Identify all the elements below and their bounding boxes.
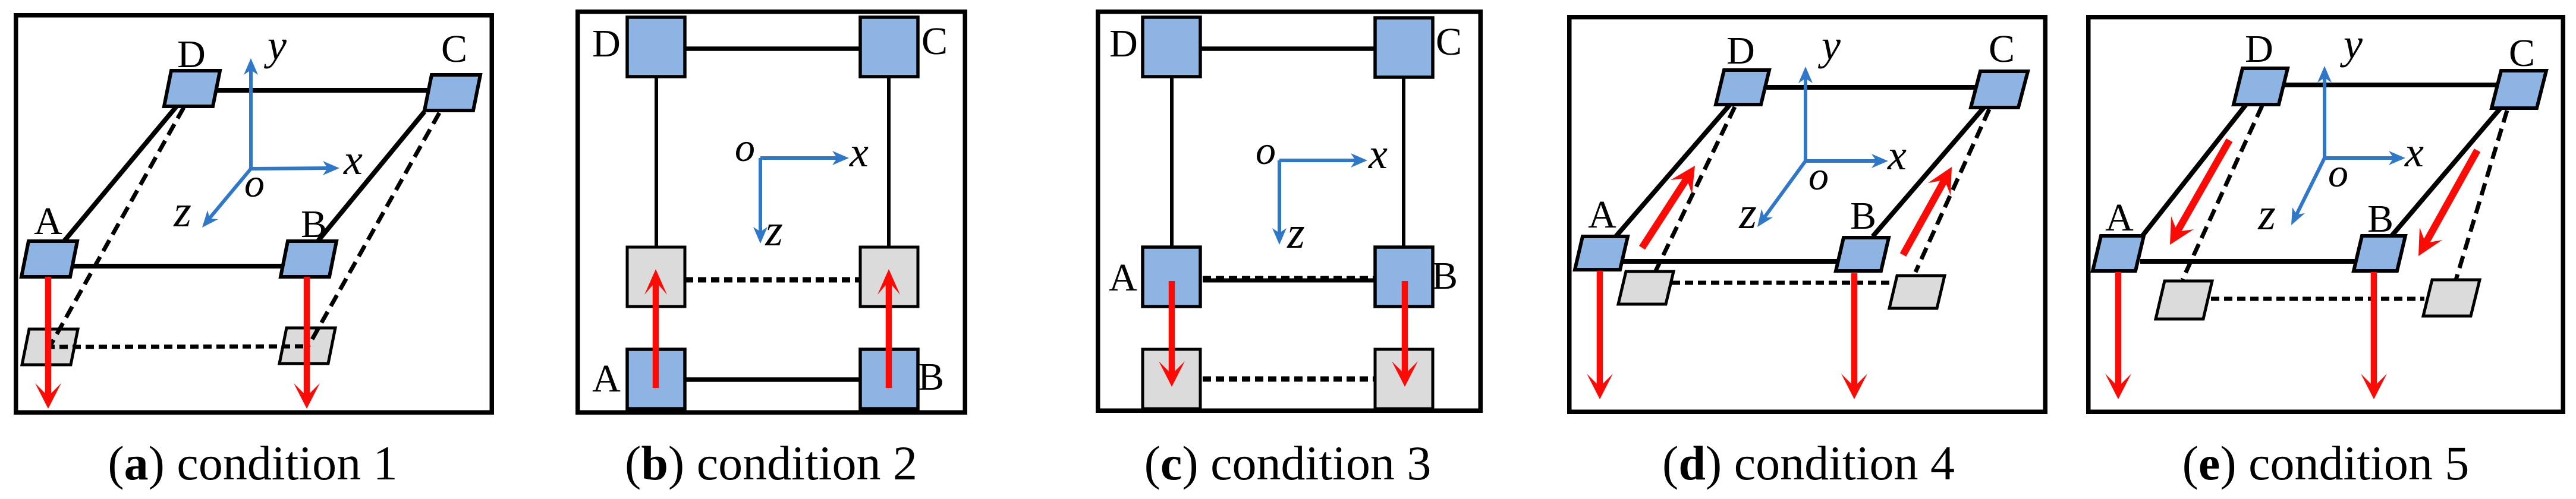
svg-text:(c) condition 3: (c) condition 3 [1144, 436, 1432, 490]
wire D-C edge (a) [209, 88, 430, 93]
svg-text:B: B [301, 203, 327, 246]
svg-text:x: x [2404, 128, 2424, 176]
svg-text:o: o [1256, 128, 1276, 173]
svg-text:A: A [2105, 196, 2134, 239]
plate corner C (d) [1971, 71, 2028, 108]
svg-text:o: o [244, 160, 265, 206]
wire D-C edge (d) [1763, 85, 1980, 90]
plate corner A (a) [21, 241, 77, 277]
plate corner B (a) [281, 241, 336, 277]
svg-text:y: y [2339, 20, 2363, 68]
svg-text:(b) condition 2: (b) condition 2 [625, 436, 917, 490]
force arrow at A (c) [1159, 281, 1185, 387]
force arrow at B (e) [2361, 272, 2387, 399]
wire B-C edge (a) [316, 112, 424, 243]
dashed A'-B' (c) [1203, 377, 1375, 382]
shear arrow along B-C (d) [1903, 167, 1952, 255]
plate corner C (b) [860, 17, 918, 77]
panel (e) frame [2089, 17, 2564, 412]
y-axis (e) [2317, 66, 2332, 158]
wire A-D edge (a) [63, 106, 177, 242]
gray square A' (a) [22, 329, 78, 365]
z-axis (d) [1757, 161, 1806, 227]
plate corner D (a) [164, 71, 220, 106]
svg-text:B: B [2367, 197, 2393, 241]
svg-text:z: z [1738, 188, 1757, 238]
svg-text:x: x [1368, 130, 1388, 178]
z-axis (a) [202, 169, 251, 228]
wire D-C edge (c) [1201, 46, 1375, 51]
gray square B' (d) [1889, 276, 1945, 308]
force arrow at B (b) [877, 269, 900, 388]
plate corner D (e) [2234, 68, 2288, 105]
svg-text:y: y [263, 21, 287, 69]
svg-text:A: A [592, 357, 621, 400]
x-axis (a) [251, 161, 339, 175]
gray square A' (b) [627, 247, 685, 307]
svg-text:A: A [1588, 193, 1616, 236]
wire D-C edge (b) [685, 46, 860, 51]
svg-text:x: x [343, 136, 363, 184]
svg-text:A: A [1109, 256, 1137, 299]
gray square B' (c) [1375, 349, 1433, 409]
panel (d) frame [1569, 17, 2046, 412]
gray square A' (d) [1618, 271, 1674, 304]
force arrow at B (d) [1841, 273, 1867, 399]
svg-text:z: z [173, 187, 191, 236]
plate corner A (c) [1143, 247, 1200, 307]
panel (a) frame [16, 15, 492, 413]
wire D-C edge (e) [2282, 83, 2497, 87]
wire C to B (c) [1402, 78, 1405, 248]
svg-text:C: C [921, 20, 948, 63]
svg-text:D: D [1109, 22, 1138, 65]
dashed A'-B' (e) [2211, 297, 2424, 301]
plate corner C (e) [2492, 71, 2546, 108]
svg-text:o: o [1808, 153, 1829, 198]
svg-text:D: D [2245, 27, 2273, 71]
svg-text:z: z [1287, 208, 1305, 258]
z-axis (b) [753, 158, 768, 244]
plate corner D (d) [1716, 70, 1769, 105]
plate corner A (e) [2093, 236, 2144, 271]
x-axis (b) [760, 151, 849, 165]
force arrow at A (b) [644, 269, 667, 388]
plate corner B (e) [2354, 236, 2405, 271]
dashed C to B' (a) [309, 113, 439, 346]
svg-text:B: B [1432, 254, 1458, 298]
svg-text:A: A [34, 200, 62, 243]
wire A-D edge (d) [1615, 105, 1730, 237]
svg-text:o: o [2328, 150, 2348, 195]
plate corner A (b) [627, 349, 685, 409]
svg-text:D: D [1726, 29, 1755, 72]
shear arrow along C-B (e) [2418, 150, 2477, 256]
wire A-B edge (d) [1623, 259, 1839, 264]
svg-text:z: z [2257, 190, 2276, 239]
svg-text:x: x [1887, 131, 1907, 179]
svg-text:C: C [441, 27, 467, 71]
dashed D to A' (a) [50, 108, 184, 346]
gray square B' (b) [860, 247, 918, 307]
dashed C to B' (d) [1916, 109, 1989, 272]
force arrow at B (c) [1392, 281, 1418, 387]
plate corner B (d) [1836, 238, 1889, 271]
svg-text:D: D [177, 33, 206, 76]
gray square A' (e) [2156, 281, 2212, 319]
x-axis (c) [1279, 153, 1367, 168]
force arrow at A (e) [2105, 272, 2131, 399]
gray square B' (e) [2423, 280, 2480, 316]
plate corner C (a) [424, 75, 480, 110]
svg-text:z: z [765, 206, 783, 255]
gray square A' (c) [1143, 349, 1200, 409]
wire C to B' (b) [887, 77, 891, 248]
panel (b) frame [578, 12, 965, 413]
wire A-B edge (a) [71, 264, 288, 269]
svg-text:B: B [918, 355, 944, 399]
svg-text:C: C [2509, 31, 2535, 75]
wire D to A' (b) [655, 77, 658, 248]
shear arrow along D-A (e) [2170, 140, 2229, 245]
y-axis (a) [244, 58, 258, 169]
gray square B' (a) [279, 328, 335, 364]
dashed A'-B' (b) [685, 277, 860, 283]
svg-text:D: D [592, 22, 621, 65]
wire A-D edge (e) [2141, 105, 2246, 237]
dashed original A-B (c) [1203, 276, 1375, 279]
plate corner B (b) [860, 349, 918, 409]
shear arrow along A-D (d) [1642, 166, 1695, 248]
plate corner D (b) [627, 17, 685, 77]
svg-text:x: x [849, 128, 869, 176]
z-axis (c) [1272, 160, 1287, 245]
wire A-B edge (b) [685, 377, 860, 382]
wire A-B edge (e) [2140, 259, 2357, 264]
dashed D to A' (d) [1655, 107, 1735, 272]
plate corner A (d) [1575, 236, 1628, 270]
force arrow at A (d) [1587, 271, 1613, 399]
svg-text:C: C [1436, 20, 1462, 64]
svg-text:(e) condition 5: (e) condition 5 [2182, 436, 2470, 490]
dashed C to B' (e) [2456, 110, 2507, 280]
panel (c) frame [1098, 12, 1481, 411]
dashed A'-B' (a) [46, 346, 307, 347]
svg-text:y: y [1817, 21, 1841, 69]
wire B-C edge (d) [1873, 108, 1984, 236]
svg-text:C: C [1989, 27, 2015, 71]
z-axis (e) [2291, 158, 2325, 225]
plate corner C (c) [1375, 18, 1433, 77]
svg-text:o: o [735, 125, 755, 170]
wire A-B edge (c) [1203, 279, 1375, 283]
dashed D to A' (e) [2182, 106, 2262, 280]
force arrow at B (a) [294, 277, 320, 409]
dashed A'-B' (d) [1672, 281, 1892, 285]
svg-text:(d) condition 4: (d) condition 4 [1662, 436, 1955, 490]
wire B-C edge (e) [2391, 108, 2500, 236]
x-axis (e) [2325, 151, 2405, 165]
y-axis (d) [1798, 67, 1813, 161]
svg-text:(a) condition 1: (a) condition 1 [108, 436, 397, 490]
force arrow at A (a) [35, 277, 61, 409]
plate corner D (c) [1143, 17, 1200, 77]
x-axis (d) [1806, 154, 1888, 168]
svg-text:B: B [1850, 194, 1876, 238]
plate corner B (c) [1375, 247, 1433, 307]
wire D to A (c) [1170, 77, 1174, 248]
